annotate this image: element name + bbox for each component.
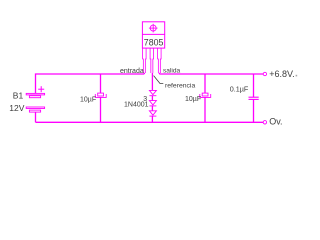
wire diode D3 to bottom rail (151, 116, 153, 122)
svg-text:salida: salida (163, 68, 181, 75)
terminal 0v (263, 121, 266, 124)
svg-text:B1: B1 (13, 91, 24, 101)
wire between diode D1 and D2 (151, 96, 153, 101)
wire salida rail (regulator output to +6.8V terminal) (159, 73, 263, 75)
capacitor C2 10uF electrolytic (box plate and cup plate) (200, 93, 211, 97)
callout line referencia (154, 76, 164, 84)
svg-text:+6.8V.: +6.8V. (269, 69, 294, 79)
capacitor C3 0.1uF plates (249, 97, 259, 99)
svg-text:Ov.: Ov. (269, 117, 282, 127)
battery B1 plus sign (38, 86, 44, 92)
svg-text:referencia: referencia (165, 82, 195, 89)
terminal +6.8V (263, 72, 266, 75)
wire capacitor C1 top drop (100, 74, 102, 93)
battery B1 cells (26, 93, 44, 112)
wire entrada leg stub (143, 73, 145, 74)
wire capacitor C1 bottom drop (100, 97, 102, 122)
wire capacitor C2 top drop (204, 74, 206, 93)
regulator U1 7805 package body (142, 22, 164, 48)
wire bottom rail 0v (36, 121, 264, 123)
svg-text:12V: 12V (9, 103, 24, 113)
wire salida leg stub (158, 73, 160, 74)
svg-text:7805: 7805 (144, 37, 164, 47)
regulator U1 pin 3 salida leg (158, 48, 162, 73)
regulator U1 pin 1 entrada leg (143, 48, 147, 73)
svg-text:0.1µF: 0.1µF (230, 85, 249, 94)
svg-text:10µF: 10µF (185, 96, 201, 103)
wire capacitor C3 top drop (253, 74, 255, 97)
wire capacitor C2 bottom drop (204, 97, 206, 122)
wire between diode D2 and D3 (151, 106, 153, 111)
diode D3 1N4001 (149, 111, 156, 116)
diode D1 1N4001 (149, 90, 156, 95)
wire referencia (middle leg down through diodes) (151, 73, 153, 90)
capacitor C1 10uF electrolytic (box plate and cup plate) (95, 93, 106, 97)
svg-text:1N4001: 1N4001 (124, 102, 149, 109)
svg-text:10µF: 10µF (80, 97, 96, 104)
wire battery bottom (35, 112, 37, 122)
wire capacitor C3 bottom drop (253, 100, 255, 123)
diode D2 1N4001 (149, 101, 156, 106)
regulator U1 mounting hole crosshair (149, 24, 158, 33)
regulator U1 pin 2 referencia leg (150, 48, 154, 73)
svg-text:entrada: entrada (120, 68, 144, 75)
wire top rail entrada (battery + to regulator input) (36, 74, 145, 94)
faint dot after +6.8V label (296, 75, 298, 77)
